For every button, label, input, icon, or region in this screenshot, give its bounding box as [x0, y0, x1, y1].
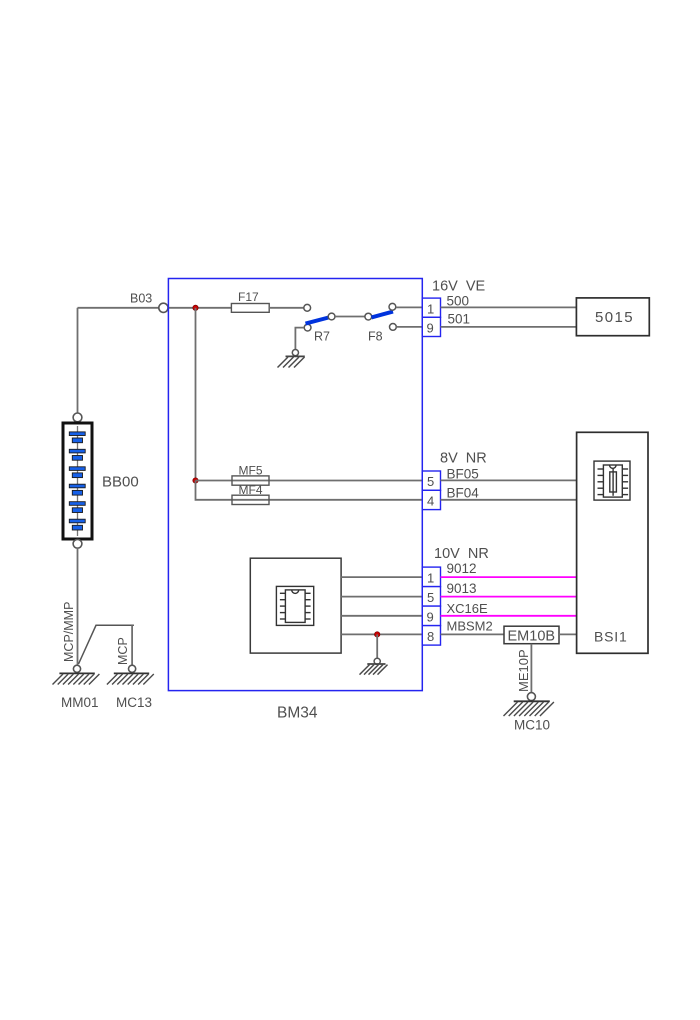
wire battery to MM01 ground: [77, 548, 79, 665]
connector pin 4 (8V): [422, 490, 440, 509]
junction dot ground branch: [375, 632, 380, 637]
wire F17 to R7 contact: [269, 307, 303, 309]
contact to pin 9: [390, 324, 397, 331]
junction dot MF: [193, 478, 198, 483]
svg-text:5: 5: [427, 590, 434, 605]
wire B03 to F17: [168, 307, 231, 309]
fuse MF4: [232, 495, 269, 504]
svg-text:F17: F17: [238, 290, 259, 304]
svg-text:9: 9: [427, 609, 434, 624]
svg-text:8V NR: 8V NR: [440, 451, 487, 467]
wire module pin 5: [341, 596, 422, 598]
wire battery top to B03 corner: [78, 308, 159, 413]
svg-text:4: 4: [427, 494, 434, 509]
wire 501: [441, 326, 577, 328]
junction dot top: [193, 305, 198, 310]
svg-text:501: 501: [448, 311, 471, 326]
chip icon in module: [276, 586, 313, 625]
connector pin 8 (10V): [422, 626, 440, 646]
wire 500: [441, 306, 577, 308]
connector pin 9 (16V): [422, 317, 440, 336]
wire F8 to pin 1: [396, 306, 423, 308]
svg-text:MBSM2: MBSM2: [447, 618, 493, 633]
wire MC13 branch: [79, 625, 134, 664]
fuse MF5: [232, 476, 269, 485]
connector pin 9 (10V): [422, 606, 440, 626]
wire 9012: [441, 576, 577, 578]
wire MBSM2: [441, 633, 505, 635]
switch F8: [365, 313, 372, 320]
svg-text:BB00: BB00: [102, 474, 139, 491]
wire EM10B to BSI1: [559, 633, 577, 635]
svg-text:1: 1: [427, 570, 434, 585]
svg-text:MC10: MC10: [514, 718, 550, 733]
svg-text:MM01: MM01: [61, 695, 99, 710]
svg-text:ME10P: ME10P: [516, 649, 531, 692]
wire module pin 9: [341, 615, 422, 617]
svg-text:500: 500: [447, 293, 470, 308]
module block in BM34: [250, 558, 341, 653]
wire R7 to F8: [334, 316, 365, 318]
svg-text:5015: 5015: [595, 309, 634, 326]
wire BF04: [441, 499, 577, 501]
svg-text:9013: 9013: [447, 581, 477, 596]
svg-text:EM10B: EM10B: [508, 629, 556, 645]
wire down to ground: [376, 634, 378, 658]
svg-text:9: 9: [427, 321, 434, 336]
svg-text:BSI1: BSI1: [594, 629, 628, 645]
svg-text:BM34: BM34: [277, 705, 318, 722]
box EM10B: [504, 626, 559, 644]
svg-text:5: 5: [427, 474, 434, 489]
wire module pin 8: [341, 633, 422, 635]
fuse F17: [231, 304, 269, 313]
wire 9013: [441, 596, 577, 598]
svg-text:16V VE: 16V VE: [432, 279, 486, 295]
ground in BM34: [374, 658, 380, 664]
svg-text:10V NR: 10V NR: [434, 546, 489, 562]
svg-text:MCP: MCP: [116, 637, 130, 665]
chip icon in BSI1: [594, 461, 630, 500]
ground MM01: [73, 665, 80, 672]
wire BF05: [441, 479, 577, 481]
svg-text:BF04: BF04: [447, 486, 480, 501]
contact circle after F17: [304, 304, 311, 311]
svg-text:MCP/MMP: MCP/MMP: [62, 602, 76, 662]
wire EM10B down to MC10: [530, 644, 532, 693]
wire XC16E: [441, 615, 577, 617]
wire junction down to MF junction: [195, 308, 197, 481]
svg-text:R7: R7: [314, 330, 330, 344]
connector pin 5 (10V): [422, 587, 440, 607]
connector pin 1 (16V): [422, 298, 440, 317]
relay R7: [304, 324, 311, 331]
svg-text:B03: B03: [130, 292, 152, 306]
box BSI1: [577, 432, 648, 653]
BM34 box: [168, 279, 422, 691]
connector pin 5 (8V): [422, 471, 440, 490]
svg-text:MF5: MF5: [239, 464, 263, 478]
wire R7 to ground: [295, 328, 304, 350]
ground MC10: [527, 693, 535, 701]
battery BB00: [73, 413, 82, 422]
svg-text:BF05: BF05: [447, 466, 479, 481]
svg-text:9012: 9012: [447, 561, 477, 576]
connector pin 1 (10V): [422, 567, 440, 587]
ground MC13: [129, 665, 136, 672]
wire junction to MF4 corner: [196, 481, 233, 500]
svg-text:F8: F8: [368, 330, 383, 344]
ground under R7: [292, 350, 298, 356]
node B03: [159, 303, 168, 312]
wire contact to pin 9: [396, 326, 422, 328]
svg-text:1: 1: [427, 301, 434, 316]
wire MF4 row: [232, 499, 423, 501]
svg-text:XC16E: XC16E: [447, 601, 489, 616]
wire module pin 1: [341, 576, 422, 578]
svg-text:MF4: MF4: [239, 483, 263, 497]
svg-text:MC13: MC13: [116, 695, 152, 710]
box 5015: [576, 298, 649, 336]
wire MF5 row: [196, 480, 423, 482]
svg-text:8: 8: [427, 629, 434, 644]
